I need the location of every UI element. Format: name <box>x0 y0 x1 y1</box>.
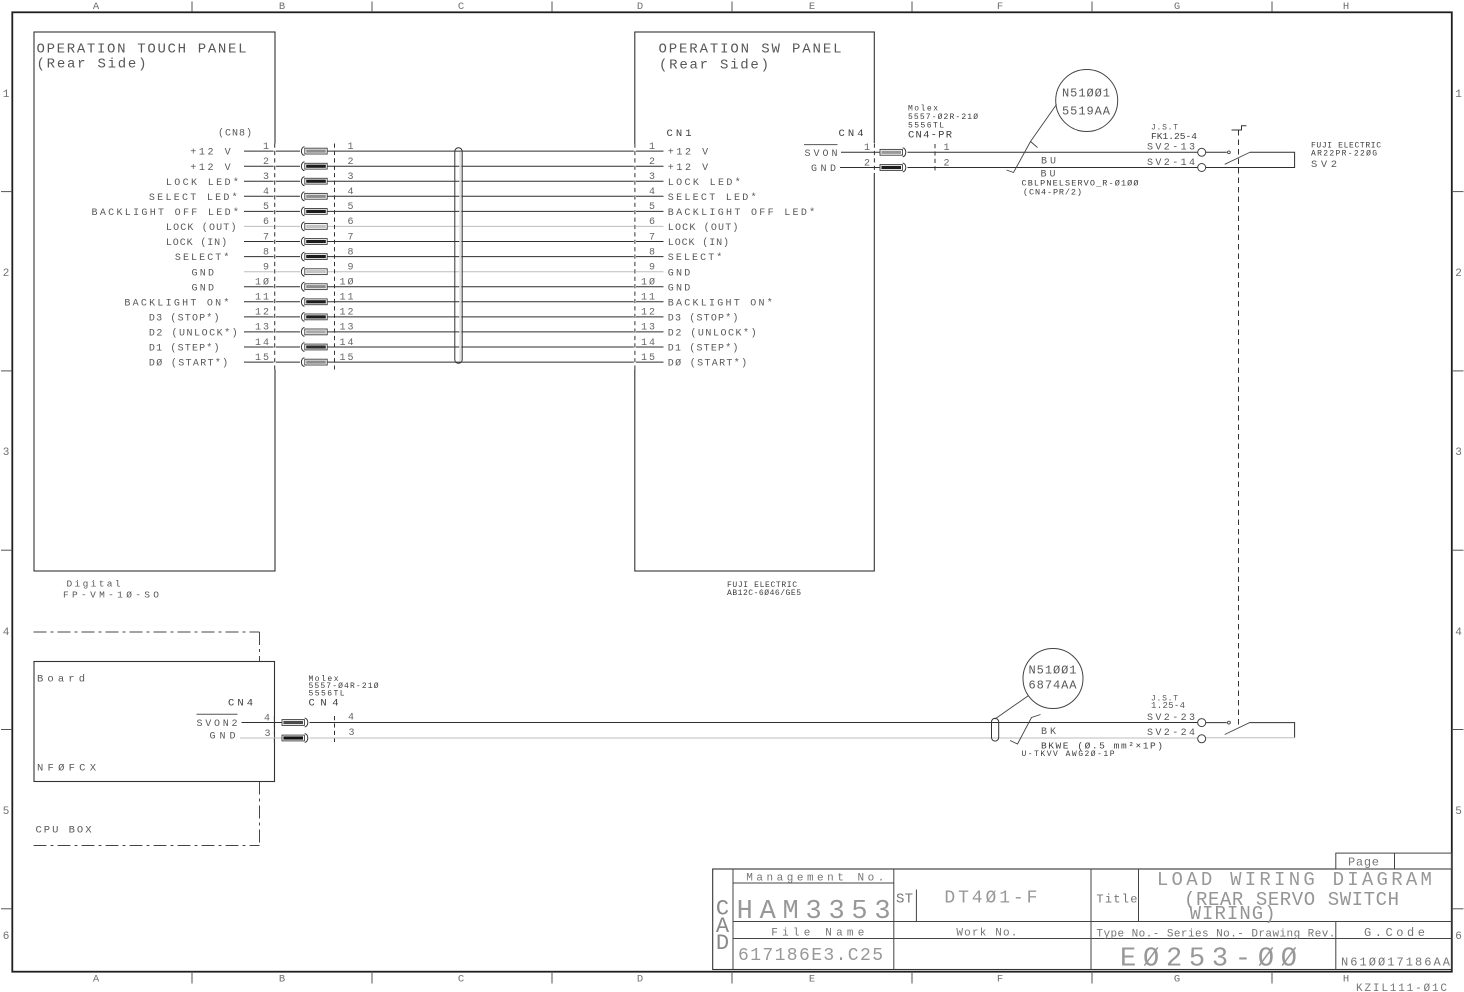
svg-text:Type No.- Series No.- Drawing: Type No.- Series No.- Drawing Rev. <box>1096 929 1335 941</box>
svg-text:4: 4 <box>348 713 354 724</box>
svg-text:A: A <box>93 973 100 985</box>
svg-text:A: A <box>93 1 100 13</box>
svg-text:5: 5 <box>649 202 655 213</box>
wire CN8 pin 7 stub <box>244 241 300 243</box>
svg-text:F: F <box>997 1 1003 13</box>
svg-text:F: F <box>997 973 1003 985</box>
svg-text:D3 (STOP*): D3 (STOP*) <box>149 313 220 325</box>
connector housing dashed line (CN4 panel edge) <box>873 144 875 173</box>
connector pin symbol row 4 <box>301 192 327 201</box>
svg-text:LOCK LED*: LOCK LED* <box>668 177 741 189</box>
connector pin symbol row 13 <box>301 328 327 337</box>
svg-text:3: 3 <box>263 172 269 183</box>
connector housing dashed line (cable side) <box>334 144 336 370</box>
svg-text:D: D <box>637 973 643 985</box>
wire CN8 pin 12 stub <box>244 316 300 318</box>
svg-text:4: 4 <box>1455 627 1462 639</box>
svg-text:4: 4 <box>264 713 270 724</box>
svg-text:SELECT*: SELECT* <box>175 252 230 264</box>
connector housing dashed line (CN8) <box>274 144 276 370</box>
svg-text:E: E <box>809 973 815 985</box>
connector housing dashed line CN4-PR <box>934 144 936 172</box>
svg-text:D2 (UNLOCK*): D2 (UNLOCK*) <box>668 328 757 340</box>
svg-text:File Name: File Name <box>771 928 864 940</box>
wire SVON stub <box>841 151 880 153</box>
connector housing dashed line CN4 (board) <box>334 716 336 742</box>
svg-text:9: 9 <box>263 263 269 274</box>
svg-text:N51ØØ1: N51ØØ1 <box>1029 664 1077 678</box>
wire CN8 pin 4 stub <box>244 195 300 197</box>
svg-text:C: C <box>458 1 464 13</box>
wire row 5 to SW panel <box>328 210 664 212</box>
connector pin symbol row 12 <box>301 313 327 322</box>
wire CN8 pin 5 stub <box>244 210 300 212</box>
svg-text:Work No.: Work No. <box>956 928 1017 940</box>
svg-text:AR22PR-22ØG: AR22PR-22ØG <box>1311 150 1377 159</box>
svg-text:G: G <box>1174 1 1180 13</box>
svg-text:CN1: CN1 <box>667 128 692 140</box>
wire row 11 to SW panel <box>328 301 664 303</box>
svg-text:8: 8 <box>649 247 655 258</box>
svg-text:Title: Title <box>1096 893 1137 907</box>
wire CN8 pin 8 stub <box>244 256 300 258</box>
svg-text:U-TKVV AWG2Ø-1P: U-TKVV AWG2Ø-1P <box>1022 750 1115 759</box>
wire row 4 to SW panel <box>328 195 664 197</box>
svg-text:(Rear Side): (Rear Side) <box>659 58 769 74</box>
svg-text:GND: GND <box>668 283 691 294</box>
switch SV2 lower box gray return <box>1206 737 1295 739</box>
svg-text:1: 1 <box>263 142 269 153</box>
CPU box dash-dot outline <box>34 632 260 846</box>
svg-text:DØ (START*): DØ (START*) <box>668 358 747 370</box>
wire CN8 pin 11 stub <box>244 301 300 303</box>
title block outer frame <box>713 869 1452 970</box>
wire CN8 pin 3 stub <box>244 180 300 182</box>
svg-text:7: 7 <box>263 232 269 243</box>
wire row 1 to SW panel <box>328 150 664 152</box>
svg-text:GND: GND <box>192 268 215 279</box>
wire GND to SV2-14 <box>908 167 1198 169</box>
svg-text:CN4-PR: CN4-PR <box>908 130 953 142</box>
connector housing dashed line (CN1) <box>634 144 636 370</box>
wire SV2-13 to contact <box>1206 151 1227 153</box>
svg-text:1Ø: 1Ø <box>255 277 269 289</box>
svg-text:13: 13 <box>255 323 269 334</box>
connector pin symbol row 11 <box>301 297 327 306</box>
svg-text:5: 5 <box>1455 806 1462 818</box>
svg-text:12: 12 <box>641 308 655 319</box>
wire CN8 pin 2 stub <box>244 165 300 167</box>
svg-text:HAM3353: HAM3353 <box>737 897 891 927</box>
svg-text:N51ØØ1: N51ØØ1 <box>1062 87 1110 101</box>
connector pin symbol CN4-PR pin 1 <box>880 148 906 157</box>
svg-text:(CN4-PR/2): (CN4-PR/2) <box>1023 188 1082 198</box>
svg-text:11: 11 <box>641 293 655 304</box>
connector pin symbol row 14 <box>301 343 327 352</box>
svg-text:5519AA: 5519AA <box>1062 105 1111 119</box>
svg-text:1Ø: 1Ø <box>641 277 655 289</box>
switch SV2 upper wiring box <box>1206 152 1295 167</box>
svg-text:4: 4 <box>263 187 269 198</box>
svg-text:DT4Ø1-F: DT4Ø1-F <box>944 888 1037 908</box>
wire row 12 to SW panel <box>328 316 664 318</box>
svg-text:GND: GND <box>210 732 236 743</box>
CAD vertical label <box>716 896 730 956</box>
svg-text:D1 (STEP*): D1 (STEP*) <box>668 343 739 355</box>
wire row 13 to SW panel <box>328 331 664 333</box>
svg-text:KZIL111-Ø1C: KZIL111-Ø1C <box>1356 983 1447 992</box>
svg-text:13: 13 <box>641 323 655 334</box>
cable group slash mark <box>1007 142 1038 173</box>
svg-text:6: 6 <box>3 931 10 943</box>
switch SV2 upper blade <box>1225 152 1251 164</box>
connector pin symbol row 3 <box>301 177 327 186</box>
connector pin symbol CN4-PR pin 2 <box>880 163 906 172</box>
svg-text:D3 (STOP*): D3 (STOP*) <box>668 313 739 325</box>
svg-text:3: 3 <box>264 729 270 740</box>
switch SV2 lower wiring box <box>1250 723 1295 738</box>
wire SVON2 to SV2-23 <box>310 722 1198 724</box>
svg-text:1.25-4: 1.25-4 <box>1151 701 1185 711</box>
svg-text:ST: ST <box>896 891 913 907</box>
connector pin symbol row 8 <box>301 252 327 261</box>
svg-text:SELECT LED*: SELECT LED* <box>668 192 757 204</box>
svg-text:6: 6 <box>263 217 269 228</box>
mechanical link dashed line <box>1238 130 1240 725</box>
svg-text:4: 4 <box>649 187 655 198</box>
wire CN8 pin 13 stub <box>244 331 300 333</box>
wire CN8 pin 9 stub <box>244 271 300 273</box>
svg-text:LOCK (IN): LOCK (IN) <box>668 237 729 249</box>
balloon N51001 6874AA <box>1023 649 1083 709</box>
connector pin symbol row 15 <box>301 358 327 367</box>
svg-text:9: 9 <box>649 263 655 274</box>
svg-text:2: 2 <box>1455 268 1462 280</box>
svg-text:2: 2 <box>649 157 655 168</box>
svg-text:G: G <box>1174 973 1180 985</box>
wire row 10 to SW panel <box>328 286 664 288</box>
wire SVON2 stub <box>242 722 283 724</box>
svg-text:15: 15 <box>255 353 269 364</box>
svg-text:(Rear Side): (Rear Side) <box>37 57 147 73</box>
wire row 3 to SW panel <box>328 180 664 182</box>
balloon leader line <box>1031 105 1057 142</box>
svg-text:2: 2 <box>263 157 269 168</box>
connector pin symbol row 10 <box>301 282 327 291</box>
svg-text:B: B <box>279 1 285 13</box>
svg-text:SV2: SV2 <box>1311 159 1337 171</box>
svg-text:7: 7 <box>649 232 655 243</box>
switch SV2 upper contact <box>1228 151 1231 154</box>
wire row 15 to SW panel <box>328 361 664 363</box>
svg-text:3: 3 <box>649 172 655 183</box>
connector housing dashed line (board CN4 edge) <box>273 716 275 743</box>
svg-text:OPERATION SW PANEL: OPERATION SW PANEL <box>659 42 842 58</box>
svg-text:3: 3 <box>3 447 10 459</box>
svg-text:GND: GND <box>192 283 215 294</box>
operation touch panel box <box>34 32 275 571</box>
title block internal lines <box>733 869 1452 970</box>
svg-text:D2 (UNLOCK*): D2 (UNLOCK*) <box>149 328 238 340</box>
svg-text:LOCK (OUT): LOCK (OUT) <box>668 222 739 234</box>
svg-text:D: D <box>637 1 643 13</box>
wire CN8 pin 1 stub <box>244 150 300 152</box>
board box <box>34 662 275 782</box>
wire row 6 to SW panel <box>328 225 664 227</box>
svg-text:Page: Page <box>1348 855 1379 869</box>
svg-text:(CN8): (CN8) <box>218 128 252 140</box>
svg-text:SELECT LED*: SELECT LED* <box>149 192 238 204</box>
connector pin symbol row 1 <box>301 147 327 156</box>
connector pin symbol row 9 <box>301 267 327 276</box>
switch SV2 lower blade <box>1225 722 1251 734</box>
wire CN8 pin 10 stub <box>244 286 300 288</box>
ring terminal SV2-24 <box>1198 735 1206 743</box>
white-out of box edges in connector regions <box>274 143 874 743</box>
svg-text:6: 6 <box>649 217 655 228</box>
svg-text:C: C <box>458 973 464 985</box>
svg-text:CN4: CN4 <box>839 128 864 140</box>
switch SV2 lower contact <box>1228 721 1231 724</box>
wire row 8 to SW panel <box>328 256 664 258</box>
svg-text:1: 1 <box>864 143 870 154</box>
svg-text:4: 4 <box>3 627 10 639</box>
svg-text:CN4: CN4 <box>228 698 253 710</box>
svg-text:6: 6 <box>1455 931 1462 943</box>
svg-text:GND: GND <box>668 268 691 279</box>
svg-text:1: 1 <box>1455 89 1462 101</box>
svg-text:LOCK (OUT): LOCK (OUT) <box>166 222 237 234</box>
svg-text:5: 5 <box>263 202 269 213</box>
connector pin symbol row 7 <box>301 237 327 246</box>
balloon N51001 5519AA <box>1056 70 1118 132</box>
svg-text:617186E3.C25: 617186E3.C25 <box>738 946 883 966</box>
svg-text:8: 8 <box>263 247 269 258</box>
svg-text:SELECT*: SELECT* <box>668 252 723 264</box>
wire row 14 to SW panel <box>328 346 664 348</box>
wire GND stub <box>840 167 880 169</box>
wire GND stub (gray) <box>240 737 282 739</box>
svg-text:AB12C-6Ø46/GE5: AB12C-6Ø46/GE5 <box>727 589 801 598</box>
svg-text:14: 14 <box>255 338 269 349</box>
ring terminal SV2-14 <box>1198 164 1206 172</box>
svg-text:WIRING): WIRING) <box>1190 903 1276 925</box>
svg-text:CN4: CN4 <box>309 698 339 710</box>
svg-text:B: B <box>279 973 285 985</box>
svg-text:GND: GND <box>811 164 836 175</box>
svg-text:6874AA: 6874AA <box>1029 679 1078 693</box>
svg-text:15: 15 <box>641 353 655 364</box>
svg-text:OPERATION TOUCH PANEL: OPERATION TOUCH PANEL <box>37 42 247 58</box>
svg-text:12: 12 <box>255 308 269 319</box>
wire row 2 to SW panel <box>328 165 664 167</box>
cable shield capsule <box>455 148 462 363</box>
wire CN8 pin 14 stub <box>244 346 300 348</box>
svg-text:2: 2 <box>864 158 870 169</box>
svg-text:H: H <box>1343 1 1349 13</box>
connector pin symbol row 2 <box>301 162 327 171</box>
svg-text:1: 1 <box>3 89 10 101</box>
ring terminal SV2-13 <box>1198 148 1206 156</box>
svg-text:14: 14 <box>641 338 655 349</box>
wire SV2-23 to contact <box>1206 722 1227 724</box>
wire CN8 pin 15 stub <box>244 361 300 363</box>
balloon leader line (bottom) <box>995 696 1029 720</box>
svg-text:FK1.25-4: FK1.25-4 <box>1151 131 1197 142</box>
svg-text:LOCK LED*: LOCK LED* <box>166 177 239 189</box>
twisted pair capsule marker <box>992 718 999 741</box>
svg-text:E: E <box>809 1 815 13</box>
svg-text:D1 (STEP*): D1 (STEP*) <box>149 343 220 355</box>
svg-text:LOCK (IN): LOCK (IN) <box>166 237 227 249</box>
svg-text:3: 3 <box>348 728 354 739</box>
svg-text:2: 2 <box>3 268 10 280</box>
wire row 9 to SW panel <box>328 271 664 273</box>
svg-text:FP-VM-1Ø-SO: FP-VM-1Ø-SO <box>63 590 159 601</box>
wire CN8 pin 6 stub <box>244 225 300 227</box>
switch operator mark <box>1232 126 1247 130</box>
svg-text:H: H <box>1343 973 1349 985</box>
svg-text:5: 5 <box>3 806 10 818</box>
connector pin symbol row 6 <box>301 222 327 231</box>
operation SW panel box <box>635 32 875 571</box>
ring terminal SV2-23 <box>1198 719 1206 727</box>
svg-text:D: D <box>716 931 729 956</box>
connector pin symbol CN4 pin 4 <box>282 718 308 727</box>
connector pin symbol CN4 pin 3 <box>282 734 308 743</box>
connector pin symbol row 5 <box>301 207 327 216</box>
wire GND to SV2-24 (gray) <box>310 737 1198 739</box>
svg-text:DØ (START*): DØ (START*) <box>149 358 228 370</box>
svg-text:1: 1 <box>649 142 655 153</box>
svg-text:3: 3 <box>1455 447 1462 459</box>
Page box <box>1336 853 1452 869</box>
wire row 7 to SW panel <box>328 241 664 243</box>
cable group slash mark (bottom) <box>1010 715 1041 745</box>
wire SVON to SV2-13 <box>908 151 1198 153</box>
svg-text:11: 11 <box>255 293 269 304</box>
